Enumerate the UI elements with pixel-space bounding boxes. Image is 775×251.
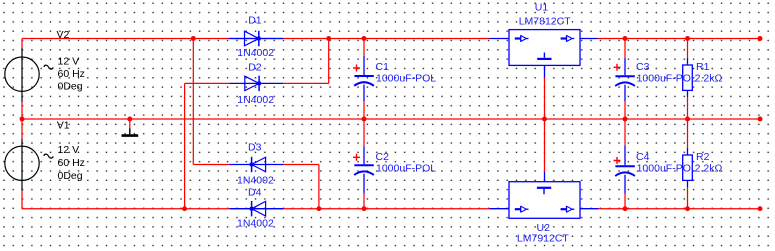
svg-text:12 V: 12 V [58,55,80,67]
svg-text:R1: R1 [696,61,710,73]
svg-text:U1: U1 [535,2,549,14]
svg-text:LM7912CT: LM7912CT [517,232,570,244]
svg-text:1N4002: 1N4002 [237,94,274,106]
svg-text:D3: D3 [248,142,262,154]
svg-text:C3: C3 [636,61,650,73]
svg-text:R2: R2 [696,151,710,163]
svg-text:D2: D2 [248,62,262,74]
svg-text:1000uF-POL: 1000uF-POL [376,162,436,174]
svg-text:D4: D4 [248,186,262,198]
svg-text:2.2kΩ: 2.2kΩ [695,72,723,84]
svg-text:D1: D1 [248,15,262,27]
svg-text:1N4002: 1N4002 [237,47,274,59]
svg-text:1000uF-POL: 1000uF-POL [376,72,436,84]
svg-text:V1: V1 [57,120,70,132]
svg-text:12 V: 12 V [58,144,80,156]
svg-text:1N4002: 1N4002 [237,175,274,187]
svg-text:0Deg: 0Deg [58,170,83,182]
svg-text:LM7812CT: LM7812CT [519,16,572,28]
svg-text:60 Hz: 60 Hz [58,68,85,80]
svg-text:1N4002: 1N4002 [237,217,274,229]
svg-text:0Deg: 0Deg [58,80,83,92]
svg-text:2.2kΩ: 2.2kΩ [695,162,723,174]
svg-text:V2: V2 [57,29,70,41]
svg-text:1000uF-POL: 1000uF-POL [637,162,697,174]
svg-text:C4: C4 [636,151,650,163]
svg-text:C1: C1 [376,61,390,73]
svg-text:C2: C2 [376,151,390,163]
svg-text:60 Hz: 60 Hz [58,157,85,169]
svg-text:1000uF-POL: 1000uF-POL [637,72,697,84]
